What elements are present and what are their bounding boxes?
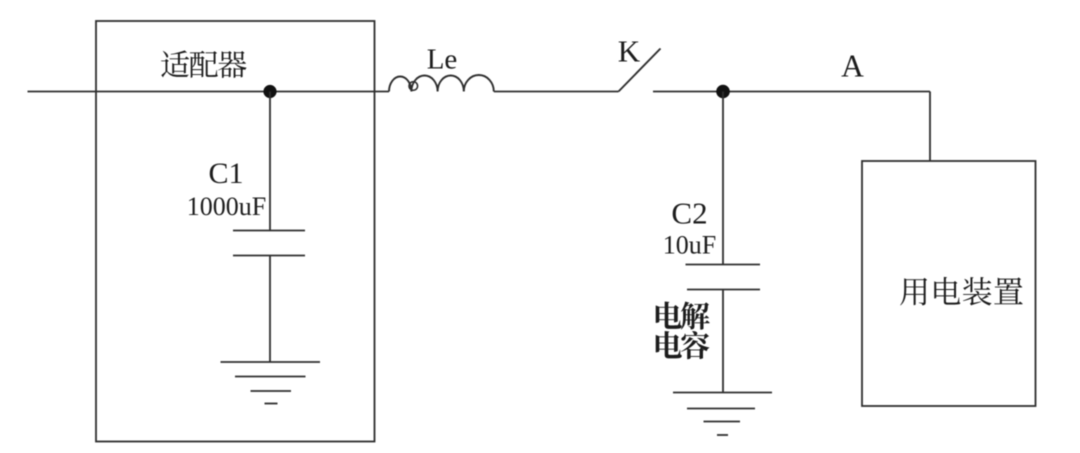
- wire input left: [28, 91, 390, 93]
- label electrolytic 电解: [656, 301, 710, 329]
- adapter box outline: [96, 21, 375, 442]
- wire C2 upper lead: [722, 92, 724, 265]
- capacitor C2 bottom plate: [687, 289, 760, 291]
- svg-text:C1: C1: [208, 157, 243, 190]
- wire inductor to switch: [494, 91, 619, 93]
- label electrolytic 电容: [656, 331, 710, 359]
- switch K blade: [619, 49, 661, 92]
- ground left bar 1: [221, 361, 321, 363]
- capacitor C1 top plate: [233, 230, 305, 232]
- svg-text:A: A: [841, 49, 864, 84]
- capacitor C1 bottom plate: [233, 255, 305, 257]
- wire node A down to load box: [929, 92, 931, 162]
- wire C1 upper lead: [269, 92, 271, 231]
- ground left bar 4: [265, 403, 278, 405]
- inductor Le: [389, 77, 411, 92]
- ground right bar 3: [704, 421, 741, 423]
- node junction dot (C2 tap): [716, 85, 730, 99]
- ground right bar 2: [687, 408, 755, 410]
- capacitor C2 top plate: [686, 264, 761, 266]
- wire switch to node A: [653, 91, 930, 93]
- wire C2 lower lead: [722, 290, 724, 393]
- ground left bar 3: [251, 390, 292, 392]
- load box outline: [862, 161, 1036, 406]
- ground right bar 4: [717, 434, 728, 436]
- svg-text:K: K: [618, 34, 641, 69]
- svg-text:Le: Le: [427, 44, 458, 76]
- svg-text:10uF: 10uF: [663, 231, 716, 260]
- svg-text:1000uF: 1000uF: [187, 192, 266, 221]
- node junction dot (C1 tap): [263, 85, 276, 98]
- ground left bar 2: [235, 376, 306, 378]
- ground right bar 1: [673, 392, 772, 394]
- wire C1 lower lead: [269, 256, 271, 363]
- svg-text:C2: C2: [671, 196, 707, 231]
- label load 用电装置: [900, 277, 1023, 306]
- label adapter 适配器: [161, 50, 246, 78]
